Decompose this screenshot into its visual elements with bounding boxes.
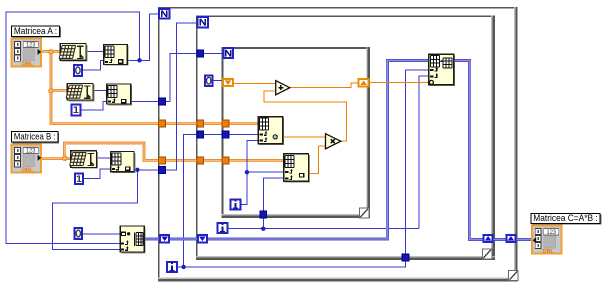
constant 0b (init element)	[74, 228, 82, 239]
wire: shift register to add node	[234, 83, 277, 85]
svg-text:123: 123	[547, 230, 557, 236]
wire: multiply out to add	[264, 91, 346, 141]
iteration terminal i inner	[230, 199, 240, 209]
tunnel B wire middle	[197, 157, 204, 164]
wire: Array Size 2 to Index Array 2	[93, 90, 107, 92]
count terminal N middle	[198, 17, 208, 27]
shift register left outer (array)	[160, 235, 169, 243]
label Matricea C	[531, 213, 602, 225]
junction dot B-cols	[135, 168, 139, 172]
add node	[276, 81, 290, 95]
tunnel outer-i middle	[197, 131, 204, 138]
wire: inner i to index inputs	[241, 140, 283, 204]
svg-text:DBL: DBL	[22, 168, 34, 174]
tunnel A-cols middle	[197, 50, 204, 57]
junction on B wire (to Array Size 3)	[63, 156, 67, 160]
junction on A wire (to Array Size 1)	[49, 50, 53, 54]
iteration terminal i outer	[167, 262, 177, 272]
junction dot middle i	[261, 227, 265, 231]
svg-text:Matricea C=A*B :: Matricea C=A*B :	[533, 213, 597, 223]
wire: const 1b to Index Array 3 index	[84, 169, 111, 179]
wire: Array Size 1 to Index Array 1	[86, 51, 104, 53]
for-loop middle frame	[196, 15, 495, 259]
wire: Array Size 3 to Index Array 3	[96, 157, 110, 159]
shift register left middle (array)	[198, 235, 207, 243]
control Matricea B (2D array)	[11, 144, 41, 173]
tunnel A wire middle	[197, 120, 204, 127]
wire: matrix B 2D array from control B	[41, 143, 284, 161]
tunnel outer-i middle bottom	[402, 254, 409, 261]
label Matricea B	[11, 132, 59, 144]
svg-text:DBL: DBL	[22, 62, 34, 68]
control Matricea A (2D array)	[11, 38, 41, 67]
wire: add out to right shift register	[289, 83, 357, 87]
shift register left inner (sum)	[223, 79, 233, 86]
Index Array 2	[107, 84, 133, 105]
wire: B element to multiply	[309, 146, 327, 173]
inner loop resize corner	[359, 208, 368, 218]
shift register right outer (array)	[507, 235, 516, 242]
svg-text:123: 123	[26, 149, 36, 155]
tunnel middle-i inner bottom	[260, 211, 267, 218]
shift register right middle (array)	[484, 235, 493, 242]
svg-text:Matricea A :: Matricea A :	[14, 26, 57, 37]
Index Array B (2D, inner loop)	[284, 154, 310, 183]
junction dot inner i	[245, 170, 249, 174]
wire: middle i to B col index and Replace index	[228, 76, 429, 229]
wire: A element to multiply	[283, 136, 327, 138]
wire: accumulated element to Replace node	[369, 82, 429, 84]
wire: const 0 to Index Array 1 index	[83, 61, 104, 70]
junction on A wire (to Array Size 2)	[49, 89, 53, 93]
for-loop outer frame	[158, 7, 517, 281]
outer loop resize corner	[509, 270, 518, 280]
Initialize Array node	[120, 226, 145, 253]
Array Size 2	[66, 83, 94, 101]
junction dot outer i	[181, 265, 185, 269]
constant 1b (dim B index)	[75, 174, 83, 185]
label Matricea A	[11, 26, 60, 38]
wire: const 0c to inner left shift register	[212, 80, 222, 82]
count terminal N outer	[159, 9, 169, 19]
shift register right inner (sum)	[359, 79, 369, 87]
wire: outer i to A row index and Replace input	[178, 70, 429, 267]
tunnel outer-i inner	[222, 131, 229, 138]
wire: const 1 to Index Array 2 index	[81, 101, 106, 110]
junction dot A-rows	[137, 58, 141, 62]
Index Array A (2D, inner loop)	[258, 117, 284, 146]
Replace Array Subset node	[429, 54, 455, 86]
indicator Matricea C (2D array)	[532, 226, 562, 255]
Array Size 3	[70, 151, 98, 169]
tunnel A wire outer	[159, 120, 166, 127]
tunnel B wire outer	[159, 157, 166, 164]
svg-text:DBL: DBL	[543, 249, 555, 255]
wire: replaced row array out to shift registers and C indicator	[454, 61, 533, 240]
tunnel B-cols outer	[159, 166, 166, 173]
constant 0 (dim A index)	[74, 65, 82, 76]
for-loop inner frame	[222, 47, 370, 218]
wire: A rows count to outer N and Initialize Array	[6, 12, 159, 243]
svg-text:Matricea B :: Matricea B :	[14, 132, 56, 143]
Index Array 3	[111, 152, 136, 174]
constant 0c (sum init)	[205, 75, 213, 86]
wire: matrix A 2D array from control A	[41, 52, 259, 124]
wire: A cols count to inner N	[131, 53, 223, 101]
tunnel A wire inner	[222, 120, 229, 127]
wire: B cols count to middle N	[52, 23, 196, 250]
wire: const 0b to Initialize Array element	[83, 233, 120, 235]
tunnel A-cols outer	[159, 98, 166, 105]
iteration terminal i middle	[217, 223, 227, 233]
multiply node	[326, 134, 341, 149]
constant 1 (dim A index)	[71, 104, 80, 115]
count terminal N inner	[223, 48, 233, 58]
wire: initialized row array through shift registers to Replace node	[144, 61, 429, 240]
Index Array 1	[104, 44, 129, 65]
Array Size 1	[59, 44, 87, 62]
tunnel B wire inner	[222, 157, 229, 164]
svg-text:123: 123	[26, 43, 36, 49]
middle loop resize corner	[482, 249, 491, 259]
